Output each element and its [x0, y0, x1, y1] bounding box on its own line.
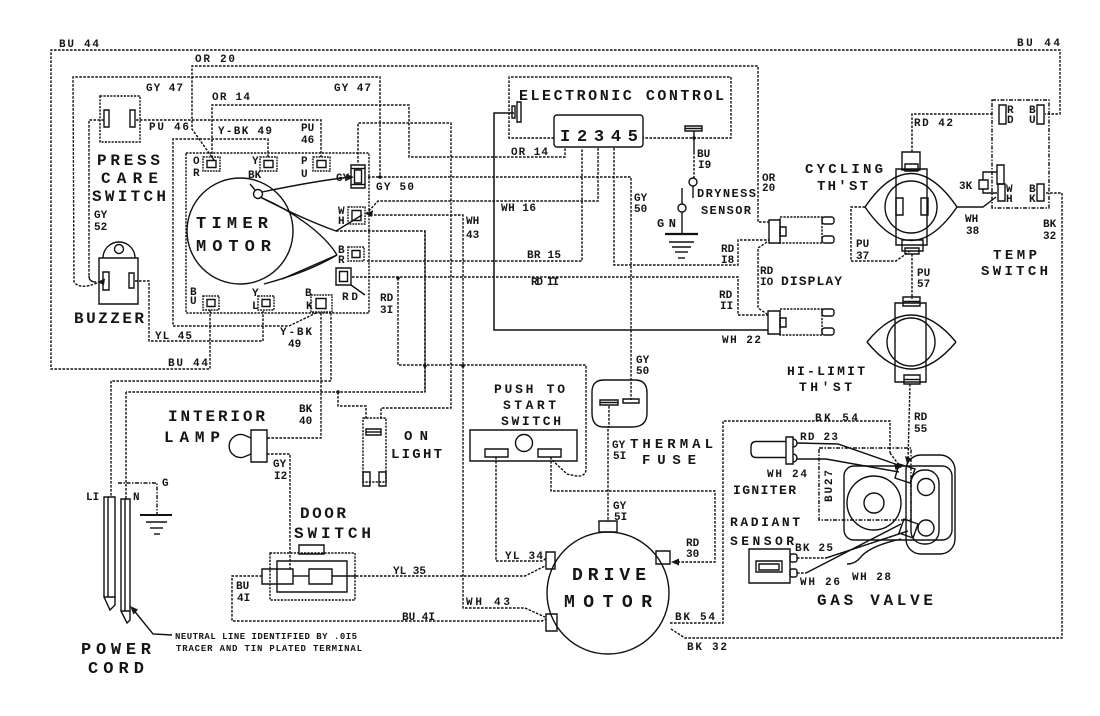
- buzzer: [74, 242, 144, 328]
- svg-text:Y-BK 49: Y-BK 49: [218, 126, 272, 138]
- on light: [363, 418, 442, 486]
- wire L1 feed: [111, 313, 331, 497]
- wire PU 57: [911, 254, 913, 299]
- svg-text:BK: BK: [248, 170, 262, 182]
- label GY 47 right: [334, 83, 371, 95]
- label YL 45: [155, 331, 192, 343]
- svg-text:GY 47: GY 47: [334, 83, 371, 95]
- svg-text:BK 25: BK 25: [795, 543, 833, 555]
- neutral note text: [175, 632, 362, 654]
- svg-text:Y-BK: Y-BK: [280, 327, 312, 339]
- svg-text:49: 49: [288, 339, 301, 351]
- label GY 51 lower (stacked): [613, 501, 627, 524]
- push to start switch: [470, 382, 577, 461]
- label BU 41 (stacked): [236, 581, 250, 605]
- svg-text:BU 4I: BU 4I: [402, 612, 435, 624]
- wire WH 38: [957, 197, 996, 207]
- svg-text:II: II: [720, 301, 733, 313]
- svg-text:TRACER AND TIN PLATED TERMINAL: TRACER AND TIN PLATED TERMINAL: [176, 644, 362, 654]
- label Y-BK 49 top: [218, 126, 272, 138]
- svg-text:Y: Y: [252, 288, 259, 300]
- wire YL 45: [135, 281, 263, 341]
- wire BK 40: [267, 313, 321, 438]
- power cord prong N: [121, 499, 130, 623]
- svg-text:GY: GY: [336, 173, 350, 185]
- arrowhead WH terminal: [366, 210, 373, 217]
- svg-text:50: 50: [636, 366, 649, 378]
- label OR 14 second: [511, 147, 548, 159]
- svg-text:P: P: [301, 156, 308, 168]
- label WH 43 (stacked): [466, 216, 480, 242]
- wire RD 10: [758, 242, 767, 314]
- timer terminal BR: [338, 245, 364, 267]
- drive motor: [546, 521, 670, 654]
- wire BK 54: [670, 421, 899, 623]
- svg-text:H: H: [1006, 194, 1013, 206]
- label BU 44 top-left: [59, 39, 99, 51]
- svg-text:BK 54: BK 54: [815, 413, 858, 425]
- svg-text:20: 20: [762, 183, 775, 195]
- svg-text:I 2 3 4 5: I 2 3 4 5: [560, 128, 638, 147]
- label RD stub: [342, 292, 358, 304]
- timer terminal GY: [336, 165, 365, 188]
- label PU 37 (stacked): [856, 239, 869, 263]
- timer cam circle: [187, 178, 293, 284]
- label RD 10 (stacked): [760, 266, 774, 289]
- svg-text:RD 23: RD 23: [800, 432, 838, 444]
- svg-text:5I: 5I: [613, 451, 626, 463]
- junction dots RD31 line crossings: [423, 136, 695, 367]
- wire N feed: [126, 231, 425, 499]
- svg-text:O: O: [193, 156, 200, 168]
- label PU 46 second (stacked): [301, 123, 314, 147]
- svg-text:LIGHT: LIGHT: [391, 447, 442, 463]
- interior lamp: [164, 408, 267, 462]
- svg-text:WH: WH: [965, 214, 978, 226]
- label WH 26: [800, 577, 840, 589]
- gas valve body: [817, 455, 955, 610]
- arrowhead RD 23 valve tab: [894, 463, 902, 470]
- wire WH 16: [366, 148, 598, 214]
- svg-text:BK: BK: [299, 404, 313, 416]
- label BK 32 right (stacked): [1043, 219, 1057, 243]
- wire WH 28: [847, 539, 901, 564]
- wire GY 47: [73, 77, 380, 286]
- svg-text:BK 54: BK 54: [675, 612, 715, 624]
- svg-text:IO: IO: [760, 277, 774, 289]
- label WH 28: [852, 572, 891, 584]
- svg-text:R: R: [338, 255, 345, 267]
- label GY 51 upper (stacked): [612, 440, 626, 463]
- arrowhead RD 55: [905, 456, 912, 464]
- wire ON light left: [338, 392, 366, 419]
- press care switch: [89, 96, 166, 282]
- 3K resistor: [959, 172, 997, 193]
- label GY 12 (stacked): [273, 459, 287, 483]
- svg-text:3I: 3I: [380, 305, 393, 317]
- label BK 54 valve: [815, 413, 858, 425]
- wire BK 25: [797, 531, 908, 558]
- temp switch: [981, 100, 1049, 280]
- label OR 20 right (stacked): [762, 173, 776, 195]
- svg-text:I2: I2: [274, 471, 287, 483]
- ground G power cord: [118, 478, 172, 534]
- neutral note leader: [130, 606, 172, 635]
- wire YL 35: [356, 566, 545, 576]
- electronic control box: [509, 77, 731, 138]
- wire YL 34: [496, 457, 546, 561]
- wire WH 22: [494, 113, 768, 330]
- junction ON light tap: [336, 390, 340, 394]
- label WH 24: [767, 469, 807, 481]
- svg-text:OR 20: OR 20: [195, 54, 235, 66]
- svg-text:RD: RD: [914, 412, 928, 424]
- wire RD 55: [908, 384, 910, 460]
- svg-text:BK: BK: [1043, 219, 1057, 231]
- timer cam follower curves: [250, 177, 362, 284]
- svg-text:OR 14: OR 14: [212, 92, 250, 104]
- timer terminal WH: [338, 206, 365, 228]
- igniter: [733, 437, 797, 498]
- svg-text:WH 16: WH 16: [501, 203, 536, 215]
- label PU 57 (stacked): [917, 268, 930, 291]
- svg-text:WH 26: WH 26: [800, 577, 840, 589]
- label RD 11 right (stacked): [719, 290, 733, 313]
- label RD 11: [531, 277, 559, 289]
- timer terminal RD: [336, 268, 351, 285]
- timer terminal Y-BK: [248, 156, 277, 182]
- label BK 32 bottom: [687, 642, 727, 654]
- svg-text:R: R: [193, 168, 200, 180]
- svg-text:N: N: [133, 492, 140, 504]
- svg-text:YL 35: YL 35: [393, 566, 426, 578]
- svg-text:BK 32: BK 32: [687, 642, 727, 654]
- label WH 16: [501, 203, 536, 215]
- timer terminal BU: [190, 287, 219, 310]
- svg-text:37: 37: [856, 251, 869, 263]
- svg-text:WH 28: WH 28: [852, 572, 891, 584]
- svg-text:RD II: RD II: [531, 277, 559, 289]
- svg-text:G: G: [162, 478, 169, 490]
- power cord label: [81, 641, 152, 679]
- label L1: [86, 492, 99, 504]
- svg-text:U: U: [1029, 115, 1036, 127]
- timer terminal PU: [301, 156, 330, 181]
- wire OR 14: [212, 105, 565, 158]
- svg-text:GY 47: GY 47: [146, 83, 183, 95]
- label OR 14: [212, 92, 250, 104]
- wire GY 51: [608, 406, 609, 522]
- svg-text:U: U: [301, 169, 308, 181]
- svg-text:RD 42: RD 42: [914, 118, 953, 130]
- svg-text:I8: I8: [721, 255, 735, 267]
- label BK 25: [795, 543, 833, 555]
- arrowhead cam to GY terminal: [346, 174, 354, 181]
- label BU 41 long: [402, 612, 435, 624]
- svg-text:38: 38: [966, 226, 980, 238]
- svg-text:THERMAL: THERMAL: [630, 437, 713, 453]
- svg-text:WH 24: WH 24: [767, 469, 807, 481]
- wire BR 15: [367, 148, 582, 261]
- wire RD 18: [614, 148, 769, 265]
- wire RD 30: [551, 457, 715, 562]
- wire WH 26: [797, 524, 901, 573]
- label BU 44 top-right: [1017, 38, 1060, 50]
- svg-text:WH: WH: [466, 216, 479, 228]
- svg-text:PU: PU: [856, 239, 869, 251]
- wire GY 12: [267, 454, 290, 570]
- timer motor box: [186, 153, 369, 313]
- label GY 50: [376, 182, 414, 194]
- electronic control 1 2 3 4 5 box: [554, 115, 643, 147]
- svg-text:DISPLAY: DISPLAY: [781, 274, 842, 289]
- wire WH 43: [370, 215, 545, 617]
- ground GN: [657, 212, 698, 258]
- svg-text:K: K: [306, 301, 313, 313]
- hi-limit thermostat: [787, 297, 956, 395]
- svg-text:5I: 5I: [614, 512, 627, 524]
- wire RD 31: [398, 278, 586, 476]
- svg-text:46: 46: [301, 135, 314, 147]
- timer terminal OR: [193, 156, 220, 180]
- svg-text:BU27: BU27: [824, 470, 836, 502]
- label N: [133, 492, 140, 504]
- label RD 55 (stacked): [914, 412, 928, 436]
- svg-text:55: 55: [914, 424, 928, 436]
- svg-text:GY 50: GY 50: [376, 182, 414, 194]
- svg-text:SENSOR: SENSOR: [701, 204, 752, 218]
- label RD 18 (stacked): [721, 244, 735, 267]
- wire GY 50: [368, 177, 631, 400]
- svg-text:IGNITER: IGNITER: [733, 483, 796, 498]
- label GY 52 (stacked): [94, 210, 108, 234]
- timer terminal YL: [252, 288, 274, 313]
- label Y-BK 49 bottom (stacked): [280, 327, 312, 351]
- label DISPLAY: [781, 274, 842, 289]
- svg-text:LI: LI: [86, 492, 99, 504]
- wire timer neutral (dotted): [126, 231, 425, 392]
- label BU 19 (stacked): [697, 149, 711, 172]
- svg-text:3K: 3K: [959, 181, 973, 193]
- wire RD 11: [352, 277, 768, 315]
- svg-text:Y: Y: [252, 156, 259, 168]
- display connector 1: [769, 217, 834, 243]
- svg-text:I9: I9: [698, 160, 711, 172]
- svg-text:OR 14: OR 14: [511, 147, 548, 159]
- svg-text:50: 50: [634, 204, 647, 216]
- label PU 46: [149, 122, 189, 134]
- svg-text:BU 44: BU 44: [168, 358, 208, 370]
- junction RD31/RD11: [396, 276, 400, 280]
- svg-text:43: 43: [466, 230, 480, 242]
- wire ON light right to GY terminal: [358, 123, 451, 419]
- label GY 50 mid (stacked): [634, 193, 648, 216]
- svg-text:YL 45: YL 45: [155, 331, 192, 343]
- svg-text:U: U: [190, 296, 197, 308]
- svg-text:BR 15: BR 15: [527, 250, 561, 262]
- svg-text:32: 32: [1043, 231, 1056, 243]
- svg-text:PRESS: PRESS: [97, 152, 160, 170]
- svg-text:BU 44: BU 44: [1017, 38, 1060, 50]
- svg-text:WH 22: WH 22: [722, 335, 761, 347]
- svg-text:DRYNESS: DRYNESS: [697, 187, 756, 201]
- label BR 15: [527, 250, 561, 262]
- label YL 34: [505, 551, 543, 563]
- svg-text:H: H: [338, 216, 345, 228]
- svg-text:D: D: [1007, 115, 1014, 127]
- svg-text:CYCLING: CYCLING: [805, 162, 883, 178]
- svg-text:40: 40: [299, 416, 312, 428]
- electronic control left terminal: [512, 102, 521, 122]
- label BK 40 (stacked): [299, 404, 313, 428]
- label GY 47 left: [146, 83, 183, 95]
- radiant sensor: [730, 515, 800, 583]
- label WH 22: [722, 335, 761, 347]
- wire OR 20: [192, 66, 770, 222]
- svg-text:BU 44: BU 44: [59, 39, 99, 51]
- svg-text:YL 34: YL 34: [505, 551, 543, 563]
- wire BU 44 (top/left border run): [51, 50, 1060, 369]
- dryness sensor: [678, 126, 756, 218]
- label RD 31 (stacked): [380, 293, 394, 317]
- label WH 38 (stacked): [965, 214, 980, 238]
- label GY 50 low (stacked): [636, 355, 650, 378]
- wire RD timer stub: [351, 285, 365, 295]
- svg-text:52: 52: [94, 222, 107, 234]
- label OR 20: [195, 54, 235, 66]
- svg-text:PU: PU: [301, 123, 314, 135]
- svg-text:L: L: [252, 301, 259, 313]
- BU27 wire box: [819, 448, 911, 520]
- svg-text:57: 57: [917, 279, 930, 291]
- wire BU 41: [232, 576, 546, 621]
- svg-text:K: K: [1029, 194, 1036, 206]
- door switch: [262, 505, 371, 600]
- svg-text:B: B: [305, 288, 312, 300]
- label BK 54 motor: [675, 612, 715, 624]
- svg-text:BU: BU: [236, 581, 249, 593]
- wire RD 23: [797, 443, 901, 472]
- svg-text:RD: RD: [380, 293, 394, 305]
- power cord prong L1: [104, 497, 115, 610]
- svg-text:4I: 4I: [237, 593, 250, 605]
- label RD 42: [914, 118, 953, 130]
- wire PU 46: [136, 120, 321, 157]
- svg-text:30: 30: [686, 549, 699, 561]
- label RD 23: [800, 432, 838, 444]
- arrowhead RD30 motor: [671, 559, 679, 566]
- wire Y-BK 49 (wraps timer): [173, 139, 316, 326]
- label YL 35: [393, 566, 426, 578]
- svg-text:GAS VALVE: GAS VALVE: [817, 592, 933, 610]
- label RD 30 (stacked): [686, 538, 700, 561]
- label WH 43 bottom: [466, 597, 510, 609]
- thermal fuse: [592, 380, 713, 469]
- svg-text:GY: GY: [273, 459, 287, 471]
- label BU 44 bottom-left: [168, 358, 208, 370]
- timer terminal BK: [305, 288, 332, 313]
- wire BK 32: [671, 193, 1062, 638]
- wire RD 42: [912, 114, 992, 152]
- svg-text:GY: GY: [94, 210, 108, 222]
- svg-text:NEUTRAL LINE IDENTIFIED BY .0I: NEUTRAL LINE IDENTIFIED BY .0I5: [175, 632, 357, 642]
- svg-text:TH'ST: TH'ST: [817, 179, 868, 195]
- svg-text:PU 46: PU 46: [149, 122, 189, 134]
- display connector 2: [768, 309, 834, 335]
- wire PU 37: [851, 207, 910, 261]
- cycling thermostat: [805, 152, 957, 254]
- junction GY47/GY50: [378, 175, 382, 179]
